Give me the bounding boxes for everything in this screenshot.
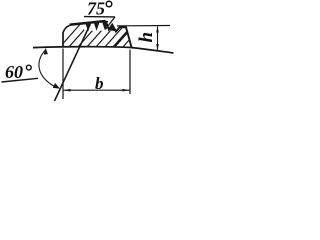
wire baseline xyxy=(33,47,174,53)
wire dim-line-b xyxy=(64,89,130,91)
svg-text:75: 75 xyxy=(87,0,105,19)
wire leader-75 xyxy=(106,17,116,29)
node tooth-4-and-step xyxy=(106,21,132,47)
node part-outline xyxy=(63,26,70,48)
svg-text:60: 60 xyxy=(5,62,23,82)
node part-body-hatching xyxy=(59,21,146,48)
node h-arrow-top xyxy=(156,26,159,33)
node h-arrow-bottom xyxy=(156,44,159,51)
wire ext-line-b-left xyxy=(62,49,64,100)
svg-text:h: h xyxy=(136,32,157,43)
node b-arrow-right xyxy=(122,89,129,92)
node tooth-4-fill xyxy=(109,25,115,31)
node b-arrow-left xyxy=(63,89,70,92)
wire ext-line-h-top xyxy=(117,25,170,27)
svg-text:b: b xyxy=(95,74,104,93)
node arc-arrow-bottom xyxy=(53,83,60,89)
node angle-arc-60 xyxy=(39,50,58,88)
wire dim-line-h xyxy=(157,27,159,51)
wire ext-line-b-right xyxy=(129,50,131,95)
node crest xyxy=(70,21,106,25)
node tooth-3 xyxy=(102,21,107,29)
node tooth-2 xyxy=(94,22,99,30)
wire underline-75 xyxy=(84,16,115,18)
node tooth-1 xyxy=(86,22,91,30)
wire underline-60 xyxy=(2,78,39,82)
wire incline-60 xyxy=(55,24,91,102)
node arc-arrow-top xyxy=(44,48,48,55)
